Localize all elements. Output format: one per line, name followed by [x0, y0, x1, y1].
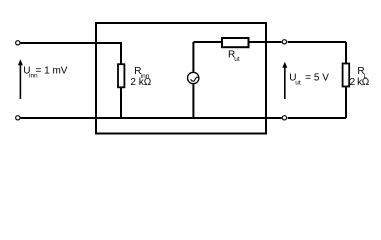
svg-text:ut: ut: [234, 56, 240, 63]
svg-text:2 kΩ: 2 kΩ: [350, 77, 370, 88]
svg-text:2 kΩ: 2 kΩ: [130, 77, 151, 88]
svg-text:= 1 mV: = 1 mV: [36, 65, 68, 76]
svg-text:= 5 V: = 5 V: [305, 73, 329, 84]
svg-text:ut: ut: [295, 79, 301, 86]
